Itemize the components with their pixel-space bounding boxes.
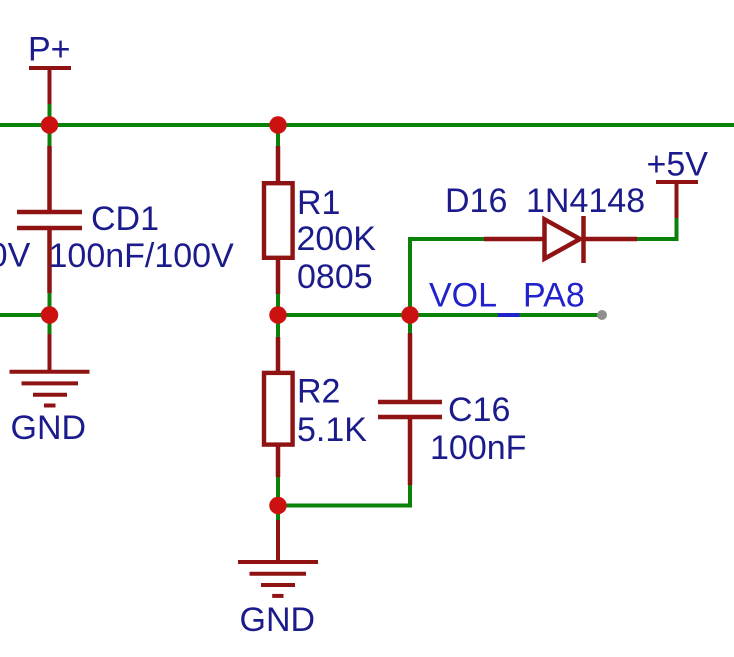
wire: R2 bottom vertical segment: [276, 476, 280, 521]
power symbol P+: [29, 68, 71, 104]
junction at R1 / top bus: [269, 116, 287, 134]
svg-text:PA8: PA8: [523, 277, 585, 315]
wire: bottom horizontal net R2-C16: [278, 504, 410, 508]
junction at VOL node / C16: [401, 306, 419, 324]
svg-text:VOL: VOL: [429, 277, 497, 315]
ground symbol GND (left): [10, 334, 90, 406]
wire: diode row left segment: [408, 237, 485, 241]
svg-text:0805: 0805: [297, 258, 373, 296]
junction at R2 / bottom net: [269, 497, 287, 515]
wire: P+ column vertical segment: [48, 103, 52, 147]
resistor R1: [264, 146, 293, 294]
junction at CD1 / left net: [41, 306, 59, 324]
wire: R1 top vertical segment: [276, 125, 280, 152]
svg-text:R1: R1: [297, 184, 340, 222]
svg-text:100nF/100V: 100nF/100V: [49, 237, 235, 275]
wire: C16 bottom vertical segment: [408, 484, 412, 508]
svg-text:1N4148: 1N4148: [526, 182, 645, 220]
wire: R1 bottom vertical segment: [276, 293, 280, 338]
svg-text:C16: C16: [448, 391, 510, 429]
svg-text:GND: GND: [11, 409, 87, 447]
junction at R1-R2 node: [269, 306, 287, 324]
wire: top horizontal power bus: [0, 123, 734, 127]
svg-text:GND: GND: [240, 601, 316, 639]
wire end marker (dangling net dot): [597, 310, 607, 320]
svg-text:R2: R2: [297, 373, 340, 411]
svg-text:P+: P+: [28, 31, 71, 69]
wire: vertical from VOL node up to diode row: [408, 239, 412, 334]
svg-text:5.1K: 5.1K: [297, 411, 367, 449]
svg-text:D16: D16: [445, 182, 507, 220]
wire: mid horizontal net VOL_PA8: [278, 313, 602, 317]
node VOL_PA8 label: [429, 277, 585, 318]
capacitor C16: [378, 333, 442, 485]
diode D16: [484, 216, 637, 263]
svg-text:CD1: CD1: [91, 200, 159, 238]
capacitor CD1: [17, 146, 82, 293]
svg-text:100nF/100V: 100nF/100V: [0, 237, 31, 275]
ground symbol GND (bottom): [238, 520, 318, 596]
svg-text:200K: 200K: [297, 220, 377, 258]
resistor R2: [264, 337, 293, 477]
svg-text:100nF: 100nF: [430, 429, 526, 467]
wire: +5V column vertical segment: [675, 217, 679, 241]
power symbol +5V: [656, 182, 698, 218]
wire: CD1 lower vertical segment: [48, 292, 52, 335]
wire: diode row right segment: [637, 237, 679, 241]
wire: left net to CD1 junction: [0, 313, 50, 317]
svg-text:+5V: +5V: [647, 146, 709, 184]
junction at P+ / top bus: [41, 116, 59, 134]
